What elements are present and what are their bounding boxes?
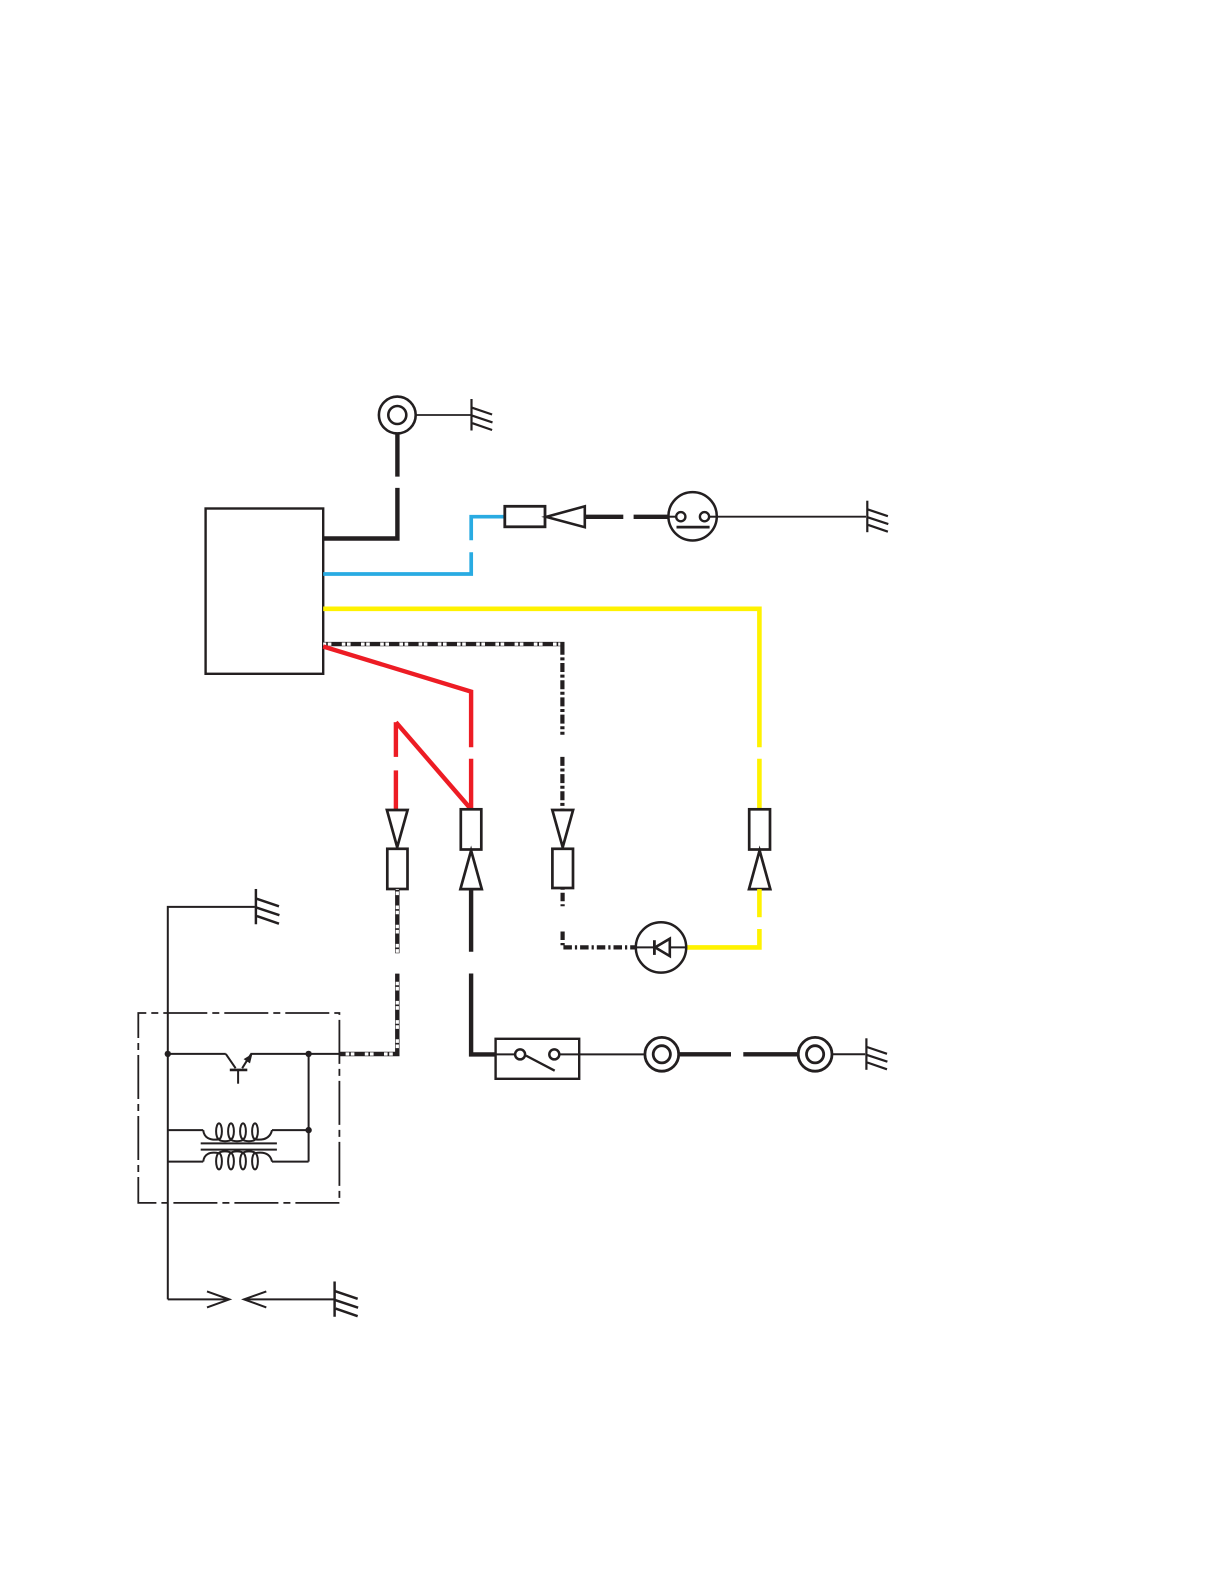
CDI unit U1 bbox=[206, 509, 324, 674]
ring terminal E1 bbox=[379, 397, 416, 434]
wire black CDI to ring terminal bbox=[323, 433, 397, 538]
wire black to magneto bbox=[585, 515, 669, 519]
wire secondary to spark gap bbox=[168, 1298, 228, 1300]
transistor arrow head bbox=[244, 1054, 253, 1064]
magneto circle bbox=[668, 492, 716, 540]
ignition coil core bbox=[201, 1143, 277, 1149]
wire black between ring connectors bbox=[679, 1052, 798, 1056]
wire ground lead to ground 3 bbox=[168, 907, 255, 1300]
wire spark gap to ground 4 bbox=[246, 1298, 334, 1300]
connector J3 (down triangle + rect) bbox=[552, 810, 573, 888]
wire blue CDI to fuse bbox=[323, 517, 505, 574]
transistor Q1 rail bbox=[168, 1054, 340, 1084]
connector J1 (female top triangle + male rect) bbox=[387, 810, 408, 889]
wire to ground 2 bbox=[717, 516, 866, 518]
spark gap connector male bbox=[207, 1291, 229, 1307]
ground 3 bbox=[256, 889, 280, 924]
ground 4 bbox=[335, 1281, 359, 1316]
wire collector to coil bbox=[308, 1054, 310, 1162]
bullet connector male (left-pointing triangle) bbox=[546, 506, 585, 527]
fuse F1 bbox=[505, 506, 545, 527]
spark gap connector female bbox=[244, 1291, 266, 1307]
diode D1 bbox=[636, 922, 686, 972]
wire ring connector 2 to ground 5 bbox=[833, 1053, 865, 1055]
ignition coil T1 secondary bbox=[168, 1151, 309, 1169]
wire red CDI to connector J2 bbox=[323, 647, 471, 810]
ground 2 bbox=[867, 501, 888, 533]
ground 5 bbox=[866, 1038, 887, 1070]
ring connector 1 bbox=[645, 1037, 679, 1071]
junction node B bbox=[305, 1051, 311, 1057]
ground 1 bbox=[472, 399, 493, 431]
connector J2 (rect + up triangle) bbox=[460, 809, 481, 889]
ring connector 2 bbox=[798, 1037, 832, 1071]
wire black/white J1 to igniter block bbox=[339, 889, 397, 1054]
junction node A bbox=[165, 1051, 171, 1057]
ignition coil T1 primary bbox=[168, 1123, 309, 1141]
wire black J2 to main switch bbox=[471, 889, 496, 1054]
wire dash-dot J3 to diode bbox=[563, 888, 637, 947]
wire black/white CDI to connector J3 bbox=[323, 644, 564, 810]
wire to ground 1 bbox=[416, 414, 471, 416]
wire red jumper to connector J1 bbox=[396, 722, 470, 810]
wire yellow CDI to connector J4 bbox=[323, 609, 759, 810]
igniter boundary box (chain line) bbox=[138, 1013, 339, 1203]
main switch S1 bbox=[496, 1039, 580, 1079]
connector J4 (rect + up triangle) bbox=[749, 809, 770, 889]
junction node C bbox=[305, 1127, 311, 1133]
wire yellow J4 to diode bbox=[687, 889, 759, 947]
wire switch to ring connector 1 bbox=[579, 1053, 644, 1055]
